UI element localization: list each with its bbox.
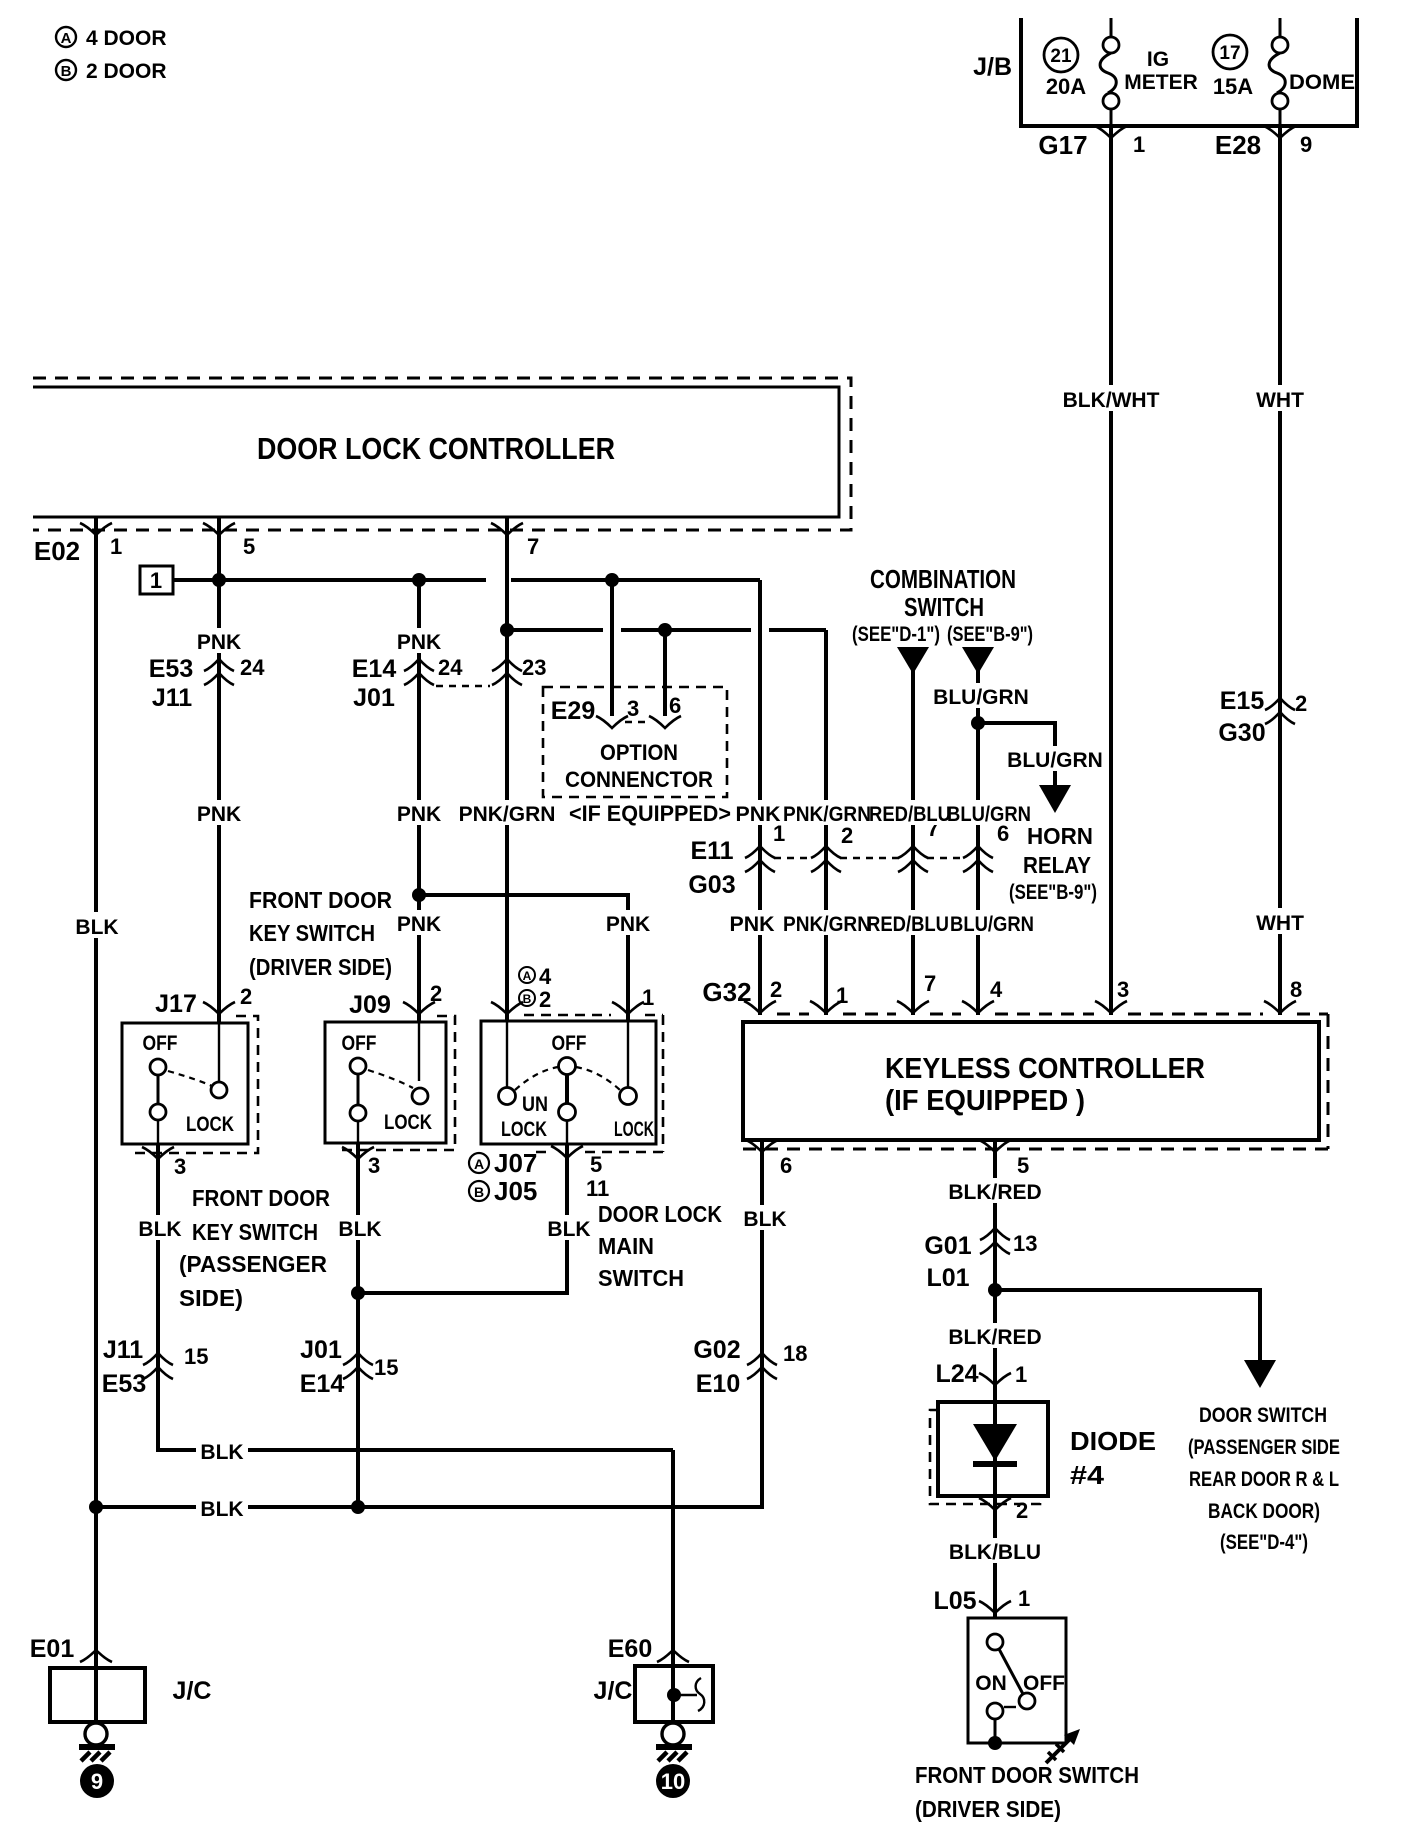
dashed links between E11 connector symbols — [774, 857, 812, 859]
svg-text:IG: IG — [1147, 48, 1169, 71]
svg-text:MAIN: MAIN — [598, 1233, 654, 1259]
svg-text:2: 2 — [539, 987, 551, 1012]
svg-text:BLU/GRN: BLU/GRN — [947, 803, 1031, 826]
horn relay labels — [1009, 823, 1097, 904]
svg-text:5: 5 — [1017, 1153, 1029, 1178]
wire color label BLK (keyless pin6) — [741, 1205, 789, 1231]
option connector E29 dashed box — [543, 687, 727, 797]
svg-text:J09: J09 — [349, 991, 391, 1019]
svg-text:BLK: BLK — [200, 1498, 243, 1521]
svg-text:LOCK: LOCK — [186, 1113, 234, 1136]
svg-text:E14: E14 — [300, 1370, 345, 1398]
svg-text:1: 1 — [110, 534, 122, 559]
svg-text:PNK: PNK — [397, 913, 441, 936]
svg-text:4 DOOR: 4 DOOR — [86, 27, 167, 50]
svg-text:BLK/RED: BLK/RED — [948, 1326, 1041, 1349]
svg-text:RELAY: RELAY — [1023, 852, 1091, 878]
svg-text:A: A — [523, 969, 532, 983]
legend circled-B 2 DOOR — [56, 60, 167, 83]
svg-text:J07: J07 — [494, 1148, 537, 1178]
svg-text:E53: E53 — [149, 655, 193, 683]
junction on E14 wire to main switch pin 1 — [412, 888, 426, 902]
svg-text:24: 24 — [240, 655, 265, 680]
wire BLK from E02 pin 1 down to ground bus — [94, 517, 98, 1507]
svg-text:OPTION: OPTION — [600, 740, 678, 765]
svg-text:3: 3 — [368, 1153, 380, 1178]
svg-text:OFF: OFF — [552, 1032, 587, 1055]
door lock controller box (dashed outline) — [33, 378, 851, 530]
svg-text:WHT: WHT — [1256, 912, 1304, 935]
svg-text:BLK: BLK — [200, 1441, 243, 1464]
svg-text:SWITCH: SWITCH — [904, 592, 984, 622]
svg-text:ON: ON — [975, 1672, 1007, 1695]
svg-text:1: 1 — [836, 983, 848, 1008]
wire BLK from main switch to J09 wire junction — [358, 1144, 567, 1293]
svg-text:DOME: DOME — [1289, 71, 1355, 94]
svg-text:21: 21 — [1050, 46, 1072, 67]
E02 pin 7 — [491, 523, 523, 535]
svg-text:(SEE"B-9"): (SEE"B-9") — [1009, 881, 1097, 904]
svg-text:J11: J11 — [103, 1336, 143, 1364]
svg-text:15: 15 — [374, 1355, 398, 1380]
G32 pin 8 — [1264, 977, 1302, 1013]
wire color label BLU/GRN on branch — [1004, 746, 1105, 772]
connector E28 pin 9 — [1215, 126, 1312, 160]
connector L24 pin 1 — [935, 1360, 1027, 1388]
svg-text:SIDE): SIDE) — [179, 1285, 243, 1311]
junction connector J/C box (ground 10) — [594, 1450, 713, 1722]
diode pin 2 — [979, 1498, 1028, 1523]
svg-text:BLK/RED: BLK/RED — [948, 1181, 1041, 1204]
svg-text:BLU/GRN: BLU/GRN — [950, 913, 1034, 936]
svg-text:(DRIVER SIDE): (DRIVER SIDE) — [915, 1796, 1061, 1822]
svg-text:8: 8 — [1290, 977, 1302, 1002]
svg-text:PNK: PNK — [730, 913, 775, 936]
svg-text:FRONT DOOR SWITCH: FRONT DOOR SWITCH — [915, 1762, 1139, 1788]
wire BLK from J17 pin 3 to E60 ground bus — [158, 1144, 673, 1450]
svg-text:1: 1 — [150, 568, 162, 593]
svg-text:PNK/GRN: PNK/GRN — [783, 913, 871, 936]
svg-text:15A: 15A — [1213, 74, 1253, 99]
svg-text:1: 1 — [1133, 132, 1145, 157]
svg-text:PNK: PNK — [397, 631, 441, 654]
wire from junction to main switch pin 1 — [419, 895, 628, 1082]
svg-text:L05: L05 — [933, 1587, 976, 1615]
fuse 17 15A DOME — [1213, 18, 1355, 126]
wire color label BLK/RED lower — [945, 1323, 1045, 1349]
keyless pin 5 — [979, 1140, 1029, 1178]
wire branch to door switches — [995, 1290, 1260, 1361]
svg-text:BLK: BLK — [547, 1218, 590, 1241]
wire BLK/RED from keyless pin 5 down to diode — [993, 1140, 997, 1403]
wire RED/BLU down to keyless controller — [911, 668, 915, 1015]
svg-text:BLK: BLK — [743, 1208, 786, 1231]
svg-text:LOCK: LOCK — [501, 1118, 547, 1141]
svg-text:REAR DOOR R & L: REAR DOOR R & L — [1189, 1468, 1339, 1491]
svg-text:E14: E14 — [352, 655, 397, 683]
keyless pin 6 — [746, 1140, 792, 1178]
svg-text:(SEE"B-9"): (SEE"B-9") — [947, 623, 1033, 646]
svg-text:J17: J17 — [155, 990, 197, 1018]
svg-text:PNK: PNK — [197, 631, 241, 654]
svg-text:COMBINATION: COMBINATION — [870, 564, 1016, 594]
svg-text:E28: E28 — [1215, 130, 1261, 160]
wire BLK/WHT from G17 to keyless controller pin 3 — [1109, 127, 1113, 1015]
front door switch label — [915, 1762, 1139, 1822]
svg-text:PNK/GRN: PNK/GRN — [459, 803, 556, 826]
wire bus y=630 from pin 7 with hops — [507, 628, 603, 632]
wire color label BLK (J09) — [337, 1215, 383, 1241]
svg-text:3: 3 — [627, 696, 639, 721]
svg-text:BLK: BLK — [138, 1218, 181, 1241]
svg-text:E10: E10 — [696, 1370, 740, 1398]
svg-text:20A: 20A — [1046, 74, 1086, 99]
front door key switch (passenger side) label — [179, 1185, 330, 1311]
source arrow from combination switch (RED/BLU) — [897, 647, 929, 674]
svg-text:B: B — [474, 1184, 484, 1200]
wire color label PNK (E14 lower) — [396, 800, 444, 826]
door switch destination labels — [1188, 1404, 1340, 1554]
svg-text:(SEE"D-4"): (SEE"D-4") — [1220, 1531, 1308, 1554]
svg-text:PNK: PNK — [197, 803, 241, 826]
wire color label BLK on lower ground bus — [196, 1495, 248, 1521]
svg-text:B: B — [61, 63, 72, 80]
wire bus from node 1 (y=580) with hop over pin-7 wire — [173, 578, 486, 582]
keyless controller dashed outline — [743, 1014, 1328, 1149]
wire to E29 pin 3 — [610, 580, 614, 716]
junction on pin5 wire — [212, 573, 226, 587]
svg-text:METER: METER — [1124, 71, 1198, 94]
wire to E11 pin 2 — [824, 630, 828, 1015]
node 1 (numbered square node) — [140, 566, 173, 594]
svg-text:24: 24 — [438, 655, 463, 680]
svg-text:B: B — [523, 992, 532, 1006]
inline connector E14/J01 pin 24 — [352, 655, 463, 712]
junction of main switch wire with J09 wire — [351, 1286, 365, 1300]
wire BLK from keyless pin 6 to ground bus — [96, 1140, 762, 1507]
door lock main switch pin A4/B2 labels — [519, 964, 552, 1012]
svg-text:2: 2 — [1016, 1498, 1028, 1523]
svg-text:23: 23 — [522, 655, 546, 680]
svg-text:9: 9 — [91, 1769, 103, 1794]
inline connector G01/L01 pin 13 — [924, 1228, 1037, 1292]
wire color label PNK (pin5 lower) — [196, 800, 244, 826]
wire color label BLK (J17) — [137, 1215, 183, 1241]
wire from bus to J09 pin 2 (E14/J01) — [417, 580, 421, 1082]
svg-text:J/C: J/C — [594, 1677, 633, 1705]
wire color label BLK/RED — [945, 1178, 1045, 1204]
connector L05 pin 1 — [933, 1586, 1030, 1615]
E11/G03 pin 6 — [963, 821, 1009, 872]
E02 pin 1 — [80, 523, 112, 535]
svg-text:J11: J11 — [152, 684, 192, 712]
G32 pin 2 — [744, 977, 782, 1013]
G32 pin 3 — [1095, 977, 1129, 1013]
connector G17 pin 1 — [1038, 126, 1145, 160]
E02 pin 5 — [203, 523, 235, 535]
svg-text:PNK/GRN: PNK/GRN — [783, 803, 871, 826]
wire color label PNK (pin5 upper) — [196, 628, 244, 654]
inline connector pin 23 on pin-7 wire — [492, 655, 546, 685]
svg-text:J01: J01 — [353, 684, 395, 712]
svg-text:OFF: OFF — [143, 1032, 178, 1055]
svg-text:A: A — [474, 1156, 484, 1172]
main switch bottom pin A J07 / B J05 — [469, 1146, 609, 1206]
svg-text:BLK: BLK — [75, 916, 118, 939]
ground symbol 10 — [656, 1723, 692, 1798]
svg-text:KEYLESS CONTROLLER: KEYLESS CONTROLLER — [885, 1053, 1205, 1085]
svg-text:6: 6 — [669, 693, 681, 718]
svg-text:WHT: WHT — [1256, 389, 1304, 412]
junction to E14/J01 branch — [412, 573, 426, 587]
door switch destination arrow — [1244, 1360, 1276, 1388]
wire color label PNK (J09 branch) — [396, 910, 444, 936]
svg-text:L24: L24 — [935, 1360, 978, 1388]
diode name label — [1070, 1426, 1156, 1490]
wire color label BLK/BLU — [945, 1538, 1045, 1564]
svg-text:11: 11 — [586, 1176, 609, 1201]
junction connector J/C box (ground 9) — [50, 1507, 211, 1722]
dashed link between connector symbols — [436, 685, 490, 687]
fuse 21 20A IG METER — [1044, 18, 1198, 126]
G32 pin 1 — [810, 983, 848, 1013]
wire through diode box — [993, 1402, 997, 1618]
svg-text:E29: E29 — [551, 697, 595, 725]
connector E01 — [30, 1635, 112, 1663]
front door switch box — [968, 1618, 1066, 1750]
svg-text:DOOR LOCK CONTROLLER: DOOR LOCK CONTROLLER — [257, 431, 615, 466]
inline connector J11/E53 pin 15 — [102, 1336, 209, 1398]
svg-text:E53: E53 — [102, 1370, 146, 1398]
switch J09 (front door key switch passenger side) — [325, 981, 455, 1150]
svg-text:2 DOOR: 2 DOOR — [86, 60, 167, 83]
svg-text:4: 4 — [990, 977, 1003, 1002]
wire color label WHT lower — [1251, 908, 1309, 935]
wire WHT from E28 to E15/G30 and keyless pin 8 — [1278, 127, 1282, 1015]
svg-text:G30: G30 — [1218, 719, 1265, 747]
inline connector J01/E14 pin 15 — [300, 1336, 399, 1398]
svg-text:J/C: J/C — [173, 1677, 212, 1705]
svg-text:UN: UN — [522, 1093, 548, 1116]
inline connector G02/E10 pin 18 — [693, 1336, 807, 1398]
svg-text:PNK: PNK — [606, 913, 650, 936]
connector E60 — [608, 1635, 689, 1663]
junction lower bus / E02 pin1 wire — [89, 1500, 103, 1514]
svg-text:9: 9 — [1300, 132, 1312, 157]
svg-text:3: 3 — [1117, 977, 1129, 1002]
wire color label PNK/GRN (pin7) — [457, 800, 559, 826]
svg-text:(IF EQUIPPED ): (IF EQUIPPED ) — [885, 1085, 1085, 1117]
inline connector row E11/G03 — [688, 837, 735, 899]
svg-text:PNK: PNK — [736, 803, 781, 826]
wire BLK from J09 pin 3 to ground bus — [356, 1143, 360, 1507]
body ground arrow at switch case — [1046, 1729, 1080, 1763]
svg-text:(SEE"D-1"): (SEE"D-1") — [852, 623, 940, 646]
wire color label BLK on upper ground bus — [196, 1438, 248, 1464]
svg-text:BLK/WHT: BLK/WHT — [1063, 389, 1160, 412]
svg-text:PNK: PNK — [397, 803, 441, 826]
svg-text:E11: E11 — [690, 837, 733, 865]
svg-text:KEY SWITCH: KEY SWITCH — [192, 1219, 318, 1245]
junction to E29 pin 3 — [605, 573, 619, 587]
wire branch to horn relay — [978, 723, 1055, 786]
svg-text:7: 7 — [924, 971, 936, 996]
svg-text:5: 5 — [243, 534, 255, 559]
svg-text:FRONT DOOR: FRONT DOOR — [249, 887, 392, 913]
svg-text:BLK/BLU: BLK/BLU — [949, 1541, 1041, 1564]
E11/G03 pin 2 — [811, 823, 853, 872]
svg-text:2: 2 — [770, 977, 782, 1002]
svg-text:BACK DOOR): BACK DOOR) — [1208, 1500, 1320, 1523]
svg-text:J05: J05 — [494, 1176, 537, 1206]
svg-text:G02: G02 — [693, 1336, 740, 1364]
svg-text:E15: E15 — [1220, 687, 1265, 715]
svg-text:18: 18 — [783, 1341, 807, 1366]
svg-text:DOOR SWITCH: DOOR SWITCH — [1199, 1404, 1327, 1427]
E11/G03 pin 7 — [898, 816, 939, 872]
wire color label row 2 below E11 (PNK PNK/GRN RED/BLU BLU/GRN) — [727, 910, 1038, 936]
svg-text:FRONT DOOR: FRONT DOOR — [192, 1185, 330, 1211]
horn relay destination arrow — [1039, 785, 1071, 813]
wire color label PNK (E14 upper) — [396, 628, 444, 654]
front door key switch (driver side) label — [249, 887, 392, 980]
wire color label BLK (main switch) — [546, 1215, 592, 1241]
door lock main switch box — [481, 985, 663, 1152]
wire to E11 pin 1 — [758, 580, 762, 1015]
keyless controller box — [743, 1022, 1319, 1140]
svg-text:(PASSENGER: (PASSENGER — [179, 1251, 327, 1277]
svg-text:2: 2 — [1295, 691, 1307, 716]
J09 pin 3 — [342, 1147, 380, 1178]
junction to door switch branch — [988, 1283, 1002, 1297]
svg-text:E02: E02 — [34, 536, 80, 566]
door lock main switch label — [598, 1201, 722, 1291]
diode #4 dashed outline — [930, 1410, 1040, 1504]
svg-text:LOCK: LOCK — [384, 1111, 432, 1134]
svg-text:HORN: HORN — [1027, 823, 1093, 849]
svg-text:SWITCH: SWITCH — [598, 1265, 684, 1291]
inline connector E53/J11 pin 24 — [149, 655, 265, 712]
svg-text:E01: E01 — [30, 1635, 75, 1663]
svg-text:13: 13 — [1013, 1231, 1037, 1256]
E11/G03 pin 1 — [745, 821, 785, 872]
svg-text:<IF EQUIPPED>: <IF EQUIPPED> — [569, 801, 731, 826]
svg-text:RED/BLU: RED/BLU — [869, 803, 951, 826]
svg-text:KEY SWITCH: KEY SWITCH — [249, 920, 375, 946]
svg-text:10: 10 — [661, 1769, 685, 1794]
svg-text:OFF: OFF — [342, 1032, 377, 1055]
svg-text:J/B: J/B — [973, 53, 1012, 81]
wire to E29 pin 6 — [663, 630, 667, 716]
combination switch source labels — [852, 564, 1033, 646]
svg-text:G03: G03 — [688, 871, 735, 899]
svg-text:1: 1 — [642, 985, 654, 1010]
svg-text:BLU/GRN: BLU/GRN — [1007, 749, 1103, 772]
G32 pin 7 — [897, 971, 936, 1013]
wire color label PNK (main switch pin 1) — [605, 910, 653, 936]
inline connector E15/G30 pin 2 — [1218, 687, 1307, 747]
svg-text:A: A — [61, 30, 72, 47]
svg-text:6: 6 — [780, 1153, 792, 1178]
G32 pin 4 — [962, 977, 1003, 1013]
svg-text:2: 2 — [841, 823, 853, 848]
wire color label row 1 above E11 (PNK PNK/GRN RED/BLU BLU/GRN) — [733, 800, 1034, 826]
svg-text:BLK: BLK — [338, 1218, 381, 1241]
ground symbol 9 — [79, 1723, 115, 1798]
svg-text:CONNENCTOR: CONNENCTOR — [565, 767, 713, 792]
svg-text:DOOR LOCK: DOOR LOCK — [598, 1201, 722, 1227]
junction to horn relay branch — [971, 716, 985, 730]
wire from E02 pin 7 down to door lock main switch — [505, 517, 509, 1082]
svg-text:(PASSENGER SIDE: (PASSENGER SIDE — [1188, 1436, 1340, 1459]
svg-text:17: 17 — [1219, 43, 1240, 64]
svg-text:OFF: OFF — [1023, 1672, 1065, 1695]
J17 pin 3 — [142, 1147, 186, 1179]
svg-text:LOCK: LOCK — [614, 1118, 654, 1141]
legend circled-A 4 DOOR — [56, 27, 167, 50]
svg-text:#4: #4 — [1070, 1460, 1105, 1490]
svg-text:7: 7 — [527, 534, 539, 559]
svg-text:RED/BLU: RED/BLU — [867, 913, 949, 936]
diode #4 box — [938, 1402, 1048, 1496]
svg-text:G17: G17 — [1038, 130, 1087, 160]
svg-text:3: 3 — [174, 1154, 186, 1179]
junction block J/B box — [1021, 18, 1357, 126]
svg-text:BLU/GRN: BLU/GRN — [933, 686, 1029, 709]
svg-text:J01: J01 — [300, 1336, 342, 1364]
junction lower bus / J09 wire — [351, 1500, 365, 1514]
svg-text:(DRIVER SIDE): (DRIVER SIDE) — [249, 954, 392, 980]
svg-text:1: 1 — [1015, 1362, 1027, 1387]
svg-text:15: 15 — [184, 1344, 208, 1369]
wire from E02 pin 5 down to J17 pin 2 — [217, 517, 221, 1082]
svg-text:G01: G01 — [924, 1232, 971, 1260]
switch J17 (front door key switch driver side) — [122, 984, 258, 1153]
svg-text:L01: L01 — [926, 1264, 969, 1292]
door lock controller box (solid) — [33, 387, 839, 517]
source arrow from combination switch (BLU/GRN) — [962, 647, 994, 674]
svg-text:4: 4 — [539, 964, 552, 989]
junction to E29 pin 6 — [658, 623, 672, 637]
diode symbol — [973, 1424, 1017, 1464]
svg-text:2: 2 — [240, 984, 252, 1009]
wire color label BLU/GRN upper — [930, 683, 1031, 709]
junction on pin-7 wire — [500, 623, 514, 637]
wire BLU/GRN down to keyless controller — [976, 668, 980, 1015]
svg-text:DIODE: DIODE — [1070, 1426, 1156, 1456]
svg-text:1: 1 — [1018, 1586, 1030, 1611]
svg-text:5: 5 — [590, 1152, 602, 1177]
svg-text:E60: E60 — [608, 1635, 652, 1663]
